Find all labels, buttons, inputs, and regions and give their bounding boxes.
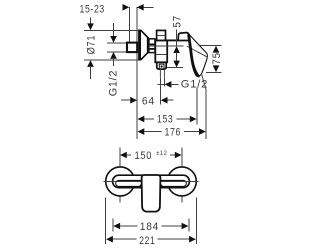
G1/2 outlet leader	[158, 83, 166, 85]
body top shelf	[167, 39, 178, 41]
left fillet wing	[139, 184, 142, 187]
inner pipe	[116, 180, 187, 186]
outlet center dot	[160, 65, 162, 67]
left escutcheon circle	[106, 167, 135, 196]
svg-text:G1/2: G1/2	[108, 70, 120, 97]
184 extension lines	[112, 219, 114, 232]
svg-text:184: 184	[140, 221, 159, 233]
escutcheon wall face thick edge	[138, 30, 141, 59]
75 dimension	[213, 46, 220, 53]
escutcheon front face	[147, 37, 149, 53]
svg-text:75: 75	[211, 52, 223, 64]
handle underside crease	[187, 46, 206, 56]
outlet pipe	[159, 69, 161, 77]
57 extension line top	[150, 45, 184, 47]
153 right extension line	[196, 87, 198, 124]
dimension 15-23 lines and arrows	[123, 4, 130, 11]
57 dimension arrows	[176, 30, 178, 47]
64 dimension	[121, 99, 130, 101]
wall face extension line	[129, 7, 131, 43]
right fillet wing	[160, 184, 163, 187]
left escutcheon centerline vertical	[119, 148, 121, 203]
handle spine thick stroke	[189, 34, 200, 76]
150±12 dimension	[120, 152, 127, 159]
handle blade	[188, 34, 207, 76]
outlet inner square	[159, 64, 164, 69]
svg-text:57: 57	[172, 15, 184, 27]
slanted extension line to 153	[199, 60, 207, 74]
wall line	[136, 7, 138, 139]
Ø71 dimension	[90, 18, 92, 26]
svg-text:150: 150	[135, 150, 153, 162]
G1/2 (wall union) dimension	[113, 23, 115, 37]
body	[155, 40, 167, 62]
body cap	[157, 30, 166, 40]
wall union square	[127, 43, 137, 53]
svg-text:G1/2: G1/2	[181, 79, 208, 91]
svg-text:Ø71: Ø71	[85, 35, 97, 55]
outlet pipe extension lines	[159, 77, 161, 104]
G1/2 (wall union) extension lines	[107, 42, 127, 44]
svg-text:153: 153	[157, 113, 173, 125]
svg-text:64: 64	[142, 96, 155, 108]
slanted extension line to 176	[202, 75, 206, 89]
153 dimension	[138, 116, 145, 123]
body bar	[113, 175, 190, 188]
right escutcheon centerline vertical	[181, 148, 183, 203]
svg-text:15-23: 15-23	[80, 3, 105, 15]
57 extension line bottom	[166, 67, 183, 69]
184 dimension	[113, 223, 120, 230]
handle hub	[178, 33, 190, 41]
right escutcheon circle	[167, 167, 196, 196]
176 dimension	[138, 128, 145, 135]
221 dimension	[106, 236, 113, 243]
75 extension lines	[192, 44, 222, 46]
Ø71 extension lines	[84, 30, 139, 32]
svg-text:±12: ±12	[156, 150, 167, 157]
svg-text:221: 221	[139, 235, 155, 247]
escutcheon (side view)	[139, 30, 148, 59]
handle (front)	[142, 175, 161, 212]
176 right extension line	[205, 89, 207, 139]
outlet nut	[157, 62, 166, 69]
svg-text:176: 176	[165, 126, 182, 138]
221 extension lines	[105, 198, 107, 245]
horizontal centerline	[104, 181, 199, 183]
connector nut	[149, 39, 155, 53]
